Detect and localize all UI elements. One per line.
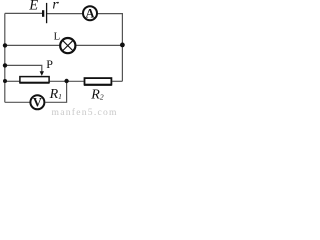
svg-text:manfen5.com: manfen5.com	[52, 107, 118, 118]
svg-text:V: V	[33, 96, 42, 110]
svg-text:E: E	[28, 0, 38, 14]
svg-text:P: P	[46, 57, 53, 71]
svg-text:A: A	[85, 7, 94, 21]
svg-text:L: L	[54, 31, 61, 43]
